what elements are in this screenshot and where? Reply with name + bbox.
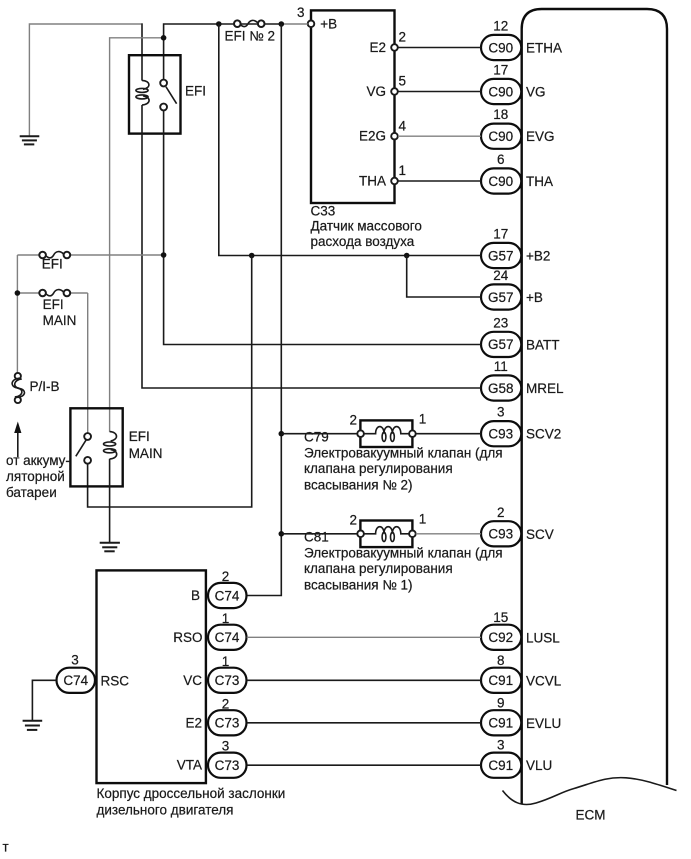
- svg-text:Электровакуумный клапан (для: Электровакуумный клапан (для: [304, 446, 503, 461]
- connector C91 pin 9 EVLU: [481, 695, 561, 735]
- wire valve C81 to SCV: [416, 533, 481, 535]
- svg-text:EVLU: EVLU: [526, 716, 561, 731]
- svg-text:VG: VG: [366, 84, 386, 99]
- svg-text:1: 1: [222, 611, 230, 626]
- svg-text:всасывания № 2): всасывания № 2): [304, 478, 413, 493]
- EFI relay box: [129, 55, 206, 133]
- svg-text:23: 23: [493, 315, 508, 330]
- ECM torn-edge wave: [503, 778, 677, 805]
- svg-text:17: 17: [493, 227, 508, 242]
- svg-text:G57: G57: [488, 337, 514, 352]
- svg-text:G57: G57: [488, 248, 514, 263]
- junction SCV tap: [279, 531, 285, 537]
- connector G57 pin 23 BATT: [481, 315, 560, 357]
- connector C91 pin 3 VLU: [481, 738, 552, 778]
- wire +B feed (top rail to C33 pin 3): [164, 24, 308, 80]
- svg-text:от аккуму-: от аккуму-: [6, 453, 70, 468]
- fuse EFI MAIN: [17, 290, 87, 328]
- svg-text:C79: C79: [304, 430, 329, 445]
- svg-text:SCV2: SCV2: [526, 427, 561, 442]
- svg-text:1: 1: [222, 654, 230, 669]
- svg-text:EFI: EFI: [42, 257, 63, 272]
- svg-text:THA: THA: [359, 174, 386, 189]
- svg-text:VG: VG: [526, 85, 546, 100]
- svg-text:E2: E2: [185, 715, 202, 730]
- svg-text:клапана регулирования: клапана регулирования: [304, 561, 453, 576]
- svg-text:Корпус дроссельной заслонки: Корпус дроссельной заслонки: [97, 786, 286, 801]
- svg-text:17: 17: [493, 63, 508, 78]
- svg-text:дизельного двигателя: дизельного двигателя: [97, 803, 234, 818]
- svg-text:Датчик массового: Датчик массового: [311, 219, 422, 234]
- EFI relay coil: [136, 80, 149, 105]
- svg-text:клапана регулирования: клапана регулирования: [304, 461, 453, 476]
- ECM label: [576, 808, 606, 823]
- battery feed arrow: [6, 422, 70, 501]
- svg-text:9: 9: [497, 695, 505, 710]
- svg-text:C90: C90: [488, 84, 513, 99]
- wire EFI MAIN coil riser: [110, 38, 164, 432]
- throttle pin B connector C74 pin 2: [191, 569, 247, 608]
- svg-text:P/I-B: P/I-B: [30, 379, 60, 394]
- svg-text:батареи: батареи: [6, 485, 57, 500]
- EFI MAIN relay box: [70, 408, 162, 486]
- connector C90 pin 6 THA: [481, 152, 553, 194]
- svg-text:+B2: +B2: [526, 249, 550, 264]
- ECM body outline: [522, 9, 667, 804]
- svg-text:G57: G57: [488, 290, 514, 305]
- junction SCV2 tap: [279, 431, 285, 437]
- solenoid valve C79: [304, 412, 503, 493]
- wire B rail (EFI No2 to throttle B pin): [247, 24, 282, 596]
- svg-text:B: B: [191, 588, 200, 603]
- svg-text:EVG: EVG: [526, 129, 555, 144]
- wire VG to VG: [398, 91, 481, 93]
- svg-text:C93: C93: [488, 427, 513, 442]
- wire EFI relay switch to BATT: [164, 110, 481, 344]
- svg-text:E2: E2: [369, 40, 386, 55]
- svg-text:2: 2: [497, 505, 505, 520]
- svg-text:2: 2: [349, 412, 357, 427]
- svg-text:всасывания № 1): всасывания № 1): [304, 578, 413, 593]
- junction coil riser: [161, 35, 167, 41]
- svg-text:EFI: EFI: [129, 429, 150, 444]
- svg-text:C74: C74: [63, 673, 88, 688]
- wire EFI MAIN relay switch to +B2 rail: [88, 256, 252, 508]
- svg-text:24: 24: [493, 268, 509, 283]
- junction top rail left: [216, 21, 222, 27]
- svg-text:C73: C73: [215, 673, 240, 688]
- wire RSO to LUSL: [247, 636, 481, 638]
- C33 pin 5 VG: [366, 74, 406, 99]
- svg-text:3: 3: [297, 5, 305, 20]
- wire THA to THA: [398, 180, 481, 182]
- wire RSC to ground: [32, 680, 56, 720]
- svg-text:SCV: SCV: [526, 527, 554, 542]
- svg-text:C91: C91: [488, 716, 513, 731]
- ground (RSC): [23, 721, 43, 730]
- svg-text:15: 15: [493, 610, 508, 625]
- throttle pin VC connector C73 pin 1: [183, 654, 246, 693]
- svg-text:THA: THA: [526, 174, 553, 189]
- svg-text:2: 2: [399, 30, 407, 45]
- svg-text:RSC: RSC: [101, 673, 130, 688]
- wire E2 to ETHA: [398, 47, 481, 49]
- wire EFI relay coil to MREL: [142, 105, 481, 388]
- svg-text:2: 2: [222, 696, 230, 711]
- svg-text:MAIN: MAIN: [43, 313, 77, 328]
- connector C93 pin 2 SCV: [481, 505, 554, 547]
- svg-text:12: 12: [493, 19, 508, 34]
- svg-text:E2G: E2G: [359, 129, 386, 144]
- svg-text:2: 2: [222, 569, 230, 584]
- throttle pin VTA connector C73 pin 3: [177, 739, 247, 778]
- svg-text:1: 1: [399, 163, 407, 178]
- svg-text:C74: C74: [215, 588, 240, 603]
- junction battery rail: [15, 290, 21, 296]
- wire E2 to EVLU: [247, 722, 481, 724]
- svg-text:C90: C90: [488, 40, 513, 55]
- wire SCV tap to valve C81: [281, 533, 357, 535]
- svg-text:C90: C90: [488, 129, 513, 144]
- wire battery rail (left): [16, 255, 18, 373]
- svg-text:3: 3: [497, 405, 505, 420]
- svg-text:C73: C73: [215, 716, 240, 731]
- svg-text:C91: C91: [488, 673, 513, 688]
- wire +B2 rail: [219, 24, 481, 256]
- svg-text:+B: +B: [526, 290, 543, 305]
- connector C91 pin 8 VCVL: [481, 653, 562, 693]
- fuse EFI No2: [225, 20, 276, 43]
- svg-text:EFI: EFI: [43, 297, 64, 312]
- svg-text:4: 4: [399, 118, 407, 133]
- EFI relay switch: [160, 80, 176, 111]
- svg-text:C90: C90: [488, 174, 513, 189]
- svg-text:LUSL: LUSL: [526, 630, 560, 645]
- svg-text:MREL: MREL: [526, 381, 564, 396]
- svg-text:C73: C73: [215, 758, 240, 773]
- connector C90 pin 17 VG: [481, 63, 546, 105]
- solenoid valve C81: [304, 512, 503, 593]
- C33 pin 4 E2G: [359, 118, 407, 143]
- connector C92 pin 15 LUSL: [481, 610, 560, 650]
- C33 pin 2 E2: [369, 30, 406, 55]
- svg-text:5: 5: [399, 74, 407, 89]
- stray mark: [3, 840, 9, 855]
- wire E2G to EVG: [398, 135, 481, 137]
- svg-text:C74: C74: [215, 630, 240, 645]
- connector G58 pin 11 MREL: [481, 359, 564, 401]
- wire VC to VCVL: [247, 679, 481, 681]
- svg-text:6: 6: [497, 152, 505, 167]
- svg-text:C93: C93: [488, 527, 513, 542]
- svg-text:3: 3: [497, 738, 505, 753]
- throttle pin RSO connector C74 pin 1: [173, 611, 246, 650]
- svg-text:ETHA: ETHA: [526, 41, 562, 56]
- fuse EFI: [17, 252, 163, 272]
- svg-text:VC: VC: [183, 673, 202, 688]
- connector C90 pin 12 ETHA: [481, 19, 562, 61]
- svg-text:+B: +B: [320, 16, 337, 31]
- junction top rail right: [279, 21, 285, 27]
- svg-text:C91: C91: [488, 758, 513, 773]
- junction +B2 / +B branch: [404, 253, 410, 259]
- wire SCV2 tap to valve C79: [281, 433, 357, 435]
- ground (below EFI MAIN relay): [100, 543, 120, 552]
- connector G57 pin 17 +B2: [481, 227, 550, 269]
- svg-text:C33: C33: [311, 204, 336, 219]
- svg-text:ляторной: ляторной: [6, 469, 65, 484]
- svg-text:RSO: RSO: [173, 630, 202, 645]
- svg-text:Электровакуумный клапан (для: Электровакуумный клапан (для: [304, 546, 503, 561]
- C33 pin 3 +B: [297, 5, 337, 31]
- svg-text:8: 8: [497, 653, 505, 668]
- svg-text:3: 3: [222, 739, 230, 754]
- svg-text:ECM: ECM: [576, 808, 606, 823]
- svg-text:2: 2: [349, 512, 357, 527]
- wire +B branch: [407, 256, 481, 298]
- svg-text:EFI № 2: EFI № 2: [225, 28, 276, 43]
- svg-text:11: 11: [494, 359, 508, 374]
- svg-text:EFI: EFI: [185, 84, 206, 99]
- wire EFI MAIN fuse to relay switch: [87, 293, 89, 433]
- wire VTA to VLU: [247, 764, 481, 766]
- EFI MAIN relay switch: [76, 433, 91, 464]
- fusible link P/I-B: [12, 373, 59, 403]
- svg-text:VCVL: VCVL: [526, 673, 562, 688]
- svg-text:MAIN: MAIN: [129, 446, 163, 461]
- junction EFI fuse / relay line: [161, 252, 167, 258]
- svg-text:G58: G58: [488, 381, 514, 396]
- connector G57 pin 24 +B: [481, 268, 543, 310]
- svg-text:BATT: BATT: [526, 337, 560, 352]
- svg-text:1: 1: [419, 512, 427, 527]
- connector C93 pin 3 SCV2: [481, 405, 561, 447]
- wire EFI MAIN coil to ground: [109, 459, 111, 542]
- junction +B2 / relay feed: [249, 253, 255, 259]
- svg-text:C92: C92: [488, 630, 513, 645]
- throttle pin RSC connector C74 pin 3: [57, 653, 130, 693]
- connector C90 pin 18 EVG: [481, 107, 555, 149]
- EFI MAIN relay coil: [104, 432, 117, 459]
- svg-text:VLU: VLU: [526, 758, 552, 773]
- svg-text:C81: C81: [304, 530, 329, 545]
- ground (top left): [20, 136, 40, 144]
- C33 pin 1 THA: [359, 163, 406, 188]
- svg-text:3: 3: [71, 653, 79, 668]
- svg-text:1: 1: [419, 412, 427, 427]
- svg-text:т: т: [3, 840, 9, 855]
- throttle body box: [97, 570, 286, 817]
- wire ground rail (top left): [29, 23, 142, 136]
- svg-text:18: 18: [493, 107, 508, 122]
- mass air flow sensor box C33: [311, 10, 422, 249]
- svg-text:VTA: VTA: [177, 758, 202, 773]
- wire valve C79 to SCV2: [416, 433, 481, 435]
- svg-text:расхода воздуха: расхода воздуха: [311, 234, 415, 249]
- throttle pin E2 connector C73 pin 2: [185, 696, 246, 735]
